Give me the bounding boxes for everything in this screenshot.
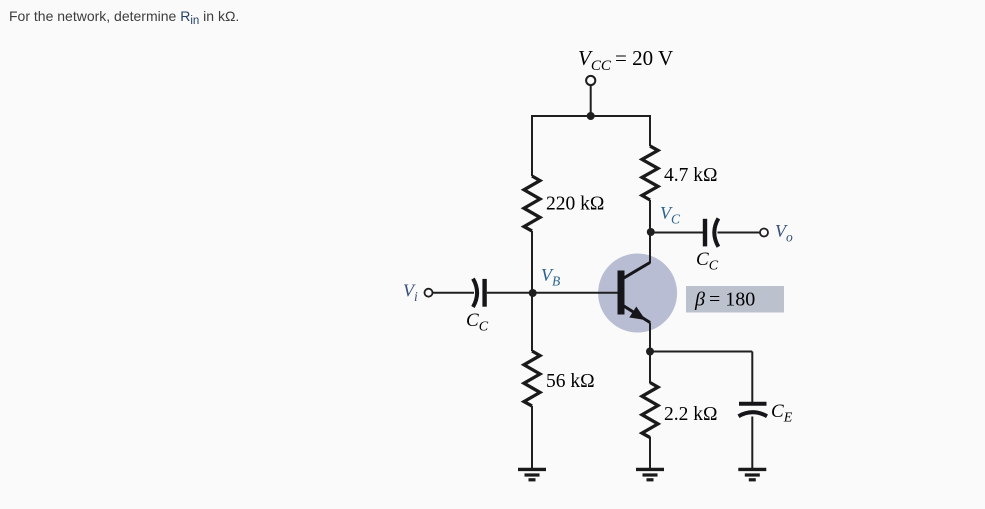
svg-text:4.7 kΩ: 4.7 kΩ bbox=[664, 165, 718, 186]
wire VB to 56k bbox=[531, 293, 533, 351]
ground under 2.2k bbox=[636, 469, 664, 479]
svg-text:2.2 kΩ: 2.2 kΩ bbox=[664, 404, 718, 425]
resistor R3 4.7 kOhm bbox=[642, 146, 658, 200]
transistor collector diagonal bbox=[623, 263, 650, 279]
wire emitter horizontal to CE bbox=[650, 351, 752, 353]
wire VC to output cap bbox=[651, 232, 703, 234]
node emitter junction dot bbox=[646, 348, 654, 356]
beta box bbox=[686, 286, 784, 313]
node Vcc junction dot bbox=[587, 112, 595, 120]
transistor emitter arrow bbox=[629, 307, 645, 321]
wire 220k to VB node bbox=[531, 231, 533, 293]
wire Vcc stem bbox=[590, 85, 592, 116]
svg-text:Vo: Vo bbox=[775, 221, 793, 245]
capacitor Cc input curved plate bbox=[473, 279, 477, 307]
transistor Q1 body circle bbox=[598, 254, 677, 333]
transistor Q1 base bar bbox=[618, 271, 625, 315]
resistor R1 220 kOhm bbox=[524, 176, 540, 231]
ground under 56k bbox=[518, 469, 546, 479]
wire emitter to 2.2k bbox=[649, 352, 651, 384]
svg-text:VB: VB bbox=[541, 265, 560, 289]
Vcc terminal circle bbox=[586, 76, 595, 85]
svg-text:Vi: Vi bbox=[403, 281, 418, 305]
wire collector vertical bbox=[649, 232, 651, 263]
svg-text:β = 180: β = 180 bbox=[694, 289, 755, 311]
svg-text:CC: CC bbox=[466, 310, 489, 335]
svg-text:CC: CC bbox=[696, 249, 719, 274]
Vi terminal circle bbox=[425, 289, 433, 297]
svg-text:For the network, determine Rin: For the network, determine Rin in kΩ. bbox=[9, 8, 239, 27]
resistor R2 56 kOhm bbox=[524, 351, 540, 406]
svg-text:220 kΩ: 220 kΩ bbox=[546, 194, 604, 215]
wire emitter vertical bbox=[649, 323, 651, 352]
svg-text:VC: VC bbox=[660, 203, 681, 227]
resistor R4 2.2 kOhm bbox=[642, 383, 658, 438]
ground under CE bbox=[738, 469, 766, 479]
capacitor CE bottom curved plate bbox=[739, 412, 768, 416]
svg-text:VCC = 20 V: VCC = 20 V bbox=[578, 46, 673, 74]
svg-text:CE: CE bbox=[771, 401, 793, 426]
capacitor CE top plate bbox=[739, 402, 767, 406]
svg-text:56 kΩ: 56 kΩ bbox=[546, 371, 595, 392]
wire CE bottom vertical bbox=[751, 417, 753, 469]
capacitor Cc input straight plate bbox=[482, 279, 486, 307]
wire input cap to base bbox=[487, 292, 618, 294]
capacitor Cc output curved plate bbox=[714, 218, 718, 246]
capacitor Cc output straight plate bbox=[703, 219, 707, 247]
wire output cap to Vo terminal bbox=[718, 232, 761, 234]
wire 2.2k to ground bbox=[649, 437, 651, 468]
transistor emitter diagonal bbox=[623, 306, 650, 323]
node VC junction dot bbox=[647, 228, 655, 236]
wire CE top vertical bbox=[751, 352, 753, 404]
wire top rail bbox=[532, 116, 650, 176]
wire Vi to input cap bbox=[433, 292, 474, 294]
wire 56k to ground bbox=[531, 406, 533, 468]
Vo terminal circle bbox=[760, 229, 768, 237]
wire 4.7k to VC node bbox=[649, 200, 651, 232]
node VB junction dot bbox=[529, 289, 537, 297]
